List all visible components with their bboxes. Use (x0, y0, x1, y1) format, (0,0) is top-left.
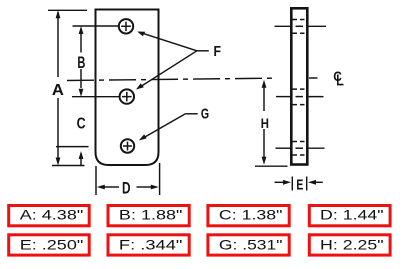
svg-text:G: G (201, 105, 209, 122)
table cell E: .250" (9, 235, 90, 255)
hole2 center lines (side view) (276, 96, 291, 98)
svg-text:E: E (296, 178, 303, 194)
dimension B line (80, 29, 82, 88)
svg-text:H: 2.25": H: 2.25" (320, 236, 384, 252)
dimension C arrow (below hole3 line, pointing up) (80, 158, 82, 166)
extension line bottom (H) (255, 165, 288, 167)
D extension lines (95, 166, 97, 195)
dimension H arrowheads (262, 80, 267, 165)
hole F middle (circle with cross) (120, 89, 134, 103)
centerline (dash-dot) left of side view (67, 78, 272, 80)
svg-text:E: .250": E: .250" (20, 236, 84, 252)
table cell C: 1.38" (208, 206, 289, 226)
dimension D line with arrows (104, 186, 152, 188)
side view rectangle (291, 8, 307, 164)
hole F top (circle with cross) (119, 19, 133, 33)
F leader lines (139, 32, 209, 87)
svg-text:C: C (77, 115, 86, 132)
dimension E arrows (pointing inward) (275, 181, 284, 183)
hole1 center lines (side view) (275, 25, 292, 27)
svg-text:F: F (213, 44, 221, 60)
svg-text:F: .344": F: .344" (119, 236, 183, 252)
table cell D: 1.44" (309, 206, 390, 226)
hidden lines hole2 (side view) (293, 89, 307, 105)
extension line hole2 (B bottom / C top) (72, 96, 120, 98)
F leader arrowheads (136, 32, 145, 90)
dimension E ticks (291, 177, 293, 191)
dimension A line (57, 12, 59, 163)
hole G bottom (circle with cross) (121, 139, 134, 152)
dimension A arrowheads (56, 10, 61, 165)
extension line bottom (A) (52, 165, 85, 167)
svg-text:B: 1.88": B: 1.88" (119, 206, 183, 222)
plate front view outline (96, 10, 159, 166)
svg-text:H: H (261, 115, 269, 131)
svg-text:B: B (77, 54, 85, 72)
hidden lines hole3 (side view) (293, 142, 307, 156)
hidden lines hole1 (side view) (293, 20, 307, 34)
G leader arrowhead (139, 134, 147, 140)
G leader line (141, 114, 198, 139)
svg-text:A: 4.38": A: 4.38" (20, 206, 84, 222)
table cell B: 1.88" (108, 206, 189, 226)
svg-text:D: D (122, 179, 131, 198)
svg-text:D: 1.44": D: 1.44" (320, 206, 384, 222)
centerline stub right of side view (309, 77, 318, 79)
dimension H line (263, 86, 265, 158)
svg-text:A: A (52, 82, 64, 99)
extension line hole3 (C bottom) (56, 146, 89, 148)
table cell F: .344" (108, 235, 189, 255)
table cell G: .531" (208, 235, 289, 255)
extension line top (A) (48, 9, 87, 11)
dimension B arrowheads (79, 26, 84, 97)
svg-text:G: .531": G: .531" (219, 236, 283, 252)
centerline symbol CL (333, 68, 343, 84)
svg-text:C: 1.38": C: 1.38" (219, 206, 283, 222)
table cell A: 4.38" (9, 206, 90, 226)
table cell H: 2.25" (309, 235, 390, 255)
extension line hole1 (B top) (73, 25, 120, 27)
hole3 center lines (side view) (276, 147, 292, 149)
